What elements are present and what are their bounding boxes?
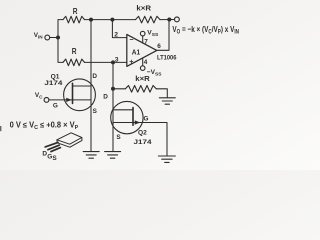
svg-text:D: D xyxy=(103,93,108,100)
svg-text:3: 3 xyxy=(115,57,119,64)
Q1 gate wire and source lead xyxy=(49,99,91,101)
resistor R1 (top R) xyxy=(63,16,85,23)
svg-text:LT1006: LT1006 xyxy=(157,54,177,61)
resistor R4 (k x R shunt) xyxy=(125,86,156,93)
ground G2 (Q1 source) xyxy=(83,152,99,159)
terminal VIN xyxy=(45,35,50,40)
svg-text:S: S xyxy=(93,108,98,115)
svg-text:S: S xyxy=(116,134,121,141)
ground G1 (shunt kxR) xyxy=(159,98,175,104)
svg-text:k×R: k×R xyxy=(135,76,150,83)
resistor R2 (bottom R) xyxy=(63,59,85,66)
svg-text:k×R: k×R xyxy=(136,5,151,12)
package lead S xyxy=(51,148,60,152)
wire summing rail xyxy=(85,19,136,21)
Q1 channel bar xyxy=(72,83,74,103)
pin 4 supply terminal xyxy=(140,66,145,71)
svg-text:6: 6 xyxy=(157,43,161,50)
wire summing node down to pin 2 xyxy=(112,20,126,38)
Q2 source lead and gate wire to ground G4 xyxy=(113,123,167,156)
wire VIN node down branch xyxy=(58,38,63,63)
node pin 3 xyxy=(111,60,115,64)
svg-text:+: + xyxy=(129,57,133,66)
pin 7 stub xyxy=(142,36,144,43)
svg-text:VO = −k × (VC/VP) x VIN: VO = −k × (VC/VP) x VIN xyxy=(172,24,239,36)
ground G4 (Q2 gate) xyxy=(158,156,175,162)
package lead D xyxy=(45,142,58,147)
svg-text:A1: A1 xyxy=(132,50,140,57)
Q1 gate arrow xyxy=(66,98,72,102)
svg-text:VSS: VSS xyxy=(147,29,159,38)
svg-text:J174: J174 xyxy=(134,140,153,146)
node summing left xyxy=(89,18,93,22)
Q2 gate arrow xyxy=(135,120,141,124)
wire output pin 6 to output node xyxy=(157,20,169,51)
svg-text:R: R xyxy=(73,7,78,16)
wire mid kxR from node xyxy=(113,88,125,90)
pin 4 stub xyxy=(142,58,144,66)
transistor Q1 body xyxy=(64,79,96,111)
Q2 drain lead xyxy=(113,109,133,111)
Q1 drain lead xyxy=(73,85,92,87)
svg-text:Q1: Q1 xyxy=(51,74,61,80)
package body thickness band xyxy=(57,138,82,148)
package lead G xyxy=(48,145,59,150)
svg-text:0 V ≤ VC ≤ +0.8 × VP: 0 V ≤ VC ≤ +0.8 × VP xyxy=(10,121,79,132)
wire feedback resistor to output node and VO terminal xyxy=(160,19,175,21)
svg-text:−: − xyxy=(129,35,133,44)
terminal VO xyxy=(175,17,180,22)
wire pin3 node down to Q2 drain and through Q2 to ground xyxy=(112,62,114,151)
svg-text:7: 7 xyxy=(144,38,148,45)
Q2 channel bar xyxy=(132,108,134,126)
op-amp A1 triangle xyxy=(127,34,157,66)
transistor Q2 body xyxy=(111,101,143,133)
package outline J174 xyxy=(45,133,82,152)
wire VIN node up to top rail xyxy=(58,20,63,38)
node Q2 drain / shunt kxR xyxy=(111,87,115,91)
wire shunt resistor to ground G1 xyxy=(156,89,167,98)
scan artifact left edge xyxy=(0,126,1,131)
svg-text:2: 2 xyxy=(114,32,118,39)
node summing right (pin 2) xyxy=(110,18,114,22)
svg-text:D: D xyxy=(92,73,97,80)
resistor R3 (k x R feedback) xyxy=(136,16,161,23)
ground G3 (Q2 source) xyxy=(105,152,121,159)
node output xyxy=(167,18,171,22)
wire Q1 drain from summing rail down through Q1 to ground xyxy=(90,20,92,152)
svg-text:4: 4 xyxy=(144,59,148,66)
wire pin 3 xyxy=(113,61,127,63)
svg-text:Q2: Q2 xyxy=(138,130,148,136)
svg-text:G: G xyxy=(144,116,149,123)
svg-text:R: R xyxy=(72,47,77,56)
svg-text:G: G xyxy=(53,103,58,110)
wire VIN terminal stub xyxy=(50,37,58,39)
svg-text:J174: J174 xyxy=(44,81,63,87)
svg-text:VIN: VIN xyxy=(34,32,43,40)
pin 7 supply terminal xyxy=(140,31,145,36)
wire bottom R to pin3 node xyxy=(85,61,114,63)
package body top face xyxy=(57,133,82,144)
svg-text:VC: VC xyxy=(35,92,43,100)
svg-text:S: S xyxy=(52,155,57,162)
node VIN junction xyxy=(56,36,60,40)
terminal VC xyxy=(44,98,49,103)
